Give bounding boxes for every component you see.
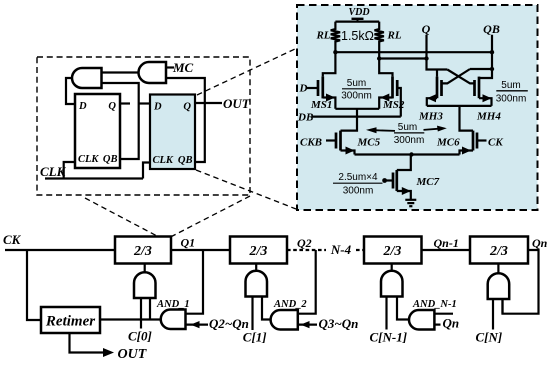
wire QB vertical [479,35,492,78]
wire CK [5,249,115,251]
wire DB [312,115,401,117]
latch D1 [75,94,120,168]
dashed wire N-4 to stage N-1 [356,249,364,251]
wire G4 input CN [492,299,494,330]
wire G1 output to stage 1 [144,264,146,273]
wire Qn output and feedback to mod gate 4 [503,250,539,314]
transistor MH4 [475,77,492,106]
divider block 2/3 stage N [470,237,528,264]
svg-text:MH4: MH4 [476,111,501,123]
wire A1 output to latch1 D [66,78,75,104]
transistor MS2 [379,59,401,117]
wire MC input stub [166,66,174,68]
dashed wire Q2 to N-4 [287,249,326,251]
svg-text:300nm: 300nm [394,135,425,146]
svg-text:DB: DB [297,111,313,123]
wire A2 output to A1 input [102,71,139,73]
svg-text:MC7: MC7 [416,176,440,188]
ground symbol [405,200,416,206]
mod AND gate G4 [488,273,510,299]
AND gate AND_N-1 [409,310,434,330]
svg-text:Q2: Q2 [297,236,312,250]
divider block 2/3 stage N-1 [364,237,422,264]
svg-text:Q3~Qn: Q3~Qn [319,316,359,331]
VDD supply symbol [352,19,364,22]
wire CK drop to Retimer [27,250,41,320]
callout dashed diagonal cell box to divider 2/3 block right [172,196,251,237]
svg-text:CKB: CKB [300,137,322,149]
wire MH pair common source rail [427,105,492,107]
svg-text:AND_N-1: AND_N-1 [412,299,457,310]
svg-text:D: D [153,102,162,113]
svg-text:QB: QB [178,155,193,166]
Retimer box [41,307,100,333]
svg-text:CLK: CLK [153,155,174,166]
wire G3 input CN-1 [385,297,387,330]
wire G2 output to stage 2 [255,264,257,272]
svg-text:5um: 5um [347,78,366,89]
wire A2 input from latch2 QB [166,78,205,162]
wire AND_N-1 input Qn stub [434,324,440,326]
AND gate A1 [72,68,102,88]
callout dashed diagonal latch2 Q to transistor box [197,49,296,96]
wire Retimer OUT with arrow [70,333,115,357]
mod AND gate G1 [134,272,156,298]
svg-text:MC6: MC6 [436,137,460,149]
transistor MS1 [306,52,335,109]
svg-text:RL: RL [387,30,402,42]
svg-text:2/3: 2/3 [383,244,402,259]
wire Q1 drop to AND_1 [186,250,204,314]
wire Qn-1 [422,249,471,251]
svg-text:OUT: OUT [223,96,251,111]
transistor MC7 [386,155,411,200]
wire G4 output to stage N [497,264,499,274]
wire G4 input feedback [501,299,503,314]
svg-text:N-4: N-4 [330,242,352,257]
junction dot QB line upper [490,50,494,54]
label 5um/300nm MH pair [496,80,528,104]
svg-text:C[1]: C[1] [243,330,267,345]
resistor RL right [375,22,384,59]
svg-text:AND_2: AND_2 [273,299,307,310]
callout dashed diagonal latch2 QB to transistor box [196,170,296,209]
transistor MH3 [427,70,442,106]
label 2.5um x4 / 300nm [333,172,383,197]
wire Q2 drop to AND_2 [298,250,316,314]
junction dot Q line [424,56,428,60]
svg-text:MS1: MS1 [310,99,332,111]
mod AND gate G2 [246,271,268,297]
arrow to MC5 [366,127,395,133]
svg-text:C[0]: C[0] [128,329,152,344]
wire CLK riser to latch2 [143,163,150,179]
wire AND_2 input Q3~Qn with arrow [298,321,317,328]
wire OUT from latch2 Q [195,102,222,104]
svg-text:2/3: 2/3 [489,244,508,259]
divider block 2/3 stage 1 [115,237,171,264]
AND gate AND_1 [161,310,186,330]
wire MS source drop to MC5 [341,109,358,131]
svg-text:OUT: OUT [118,347,148,362]
svg-text:RL: RL [315,30,330,42]
svg-text:2/3: 2/3 [249,244,268,259]
svg-text:MH3: MH3 [418,111,443,123]
wire G1 input C0 [140,298,142,329]
AND gate AND_2 [271,310,298,330]
svg-text:5um: 5um [501,80,520,91]
wire latch1 Q stub [120,102,130,104]
wire A1 input to latch2 D and latch1 QB [102,83,139,159]
svg-text:C[N]: C[N] [476,330,503,345]
wire G2 input from AND_2 [262,297,271,320]
svg-text:5um: 5um [398,122,417,133]
mod AND gate G3 [381,271,403,297]
svg-text:Qn: Qn [532,236,548,250]
svg-text:CK: CK [3,232,22,247]
junction dot left RL node [333,50,337,54]
svg-text:QB: QB [483,22,500,36]
wire CLK [45,177,143,179]
svg-text:Q: Q [422,22,431,36]
junction dot QB line lower [490,67,494,71]
svg-text:Q1: Q1 [181,236,196,250]
wire CLK riser to latch1 [64,162,75,179]
wire upper node rail from RL left to QB line [335,51,492,53]
wire lower node rail from RL right to Q line [379,57,426,59]
svg-text:D: D [78,101,87,112]
svg-text:Q: Q [108,101,116,112]
wire supply rail [335,21,379,23]
wire AND_N-1 input top stub [434,313,453,315]
svg-text:D: D [299,83,308,95]
svg-text:Q: Q [183,102,191,113]
svg-text:Qn: Qn [443,316,460,331]
transistor MC6 [460,131,487,155]
wire AND_1 input Q2~Qn with arrow [186,321,209,328]
transistor MC5 [326,131,355,155]
svg-text:Retimer: Retimer [45,314,95,330]
callout dashed diagonal cell box to divider 2/3 block left [85,198,157,236]
svg-text:AND_1: AND_1 [156,299,190,310]
svg-text:Qn-1: Qn-1 [434,236,459,250]
svg-text:300nm: 300nm [496,93,527,104]
wire G3 input from AND_N-1 [397,297,409,320]
wire Q1 [171,249,230,251]
AND gate A2 [139,62,167,83]
svg-text:MC: MC [172,60,194,75]
svg-text:1.5kΩ: 1.5kΩ [341,29,374,43]
dashed callout box of 2/3 divider cell [37,57,250,195]
wire MS pair common source rail [335,108,379,110]
resistor RL left [331,22,340,53]
svg-text:300nm: 300nm [343,186,374,197]
wire G3 output to stage N-1 [391,264,393,272]
svg-text:VDD: VDD [348,7,369,18]
svg-text:300nm: 300nm [341,90,372,101]
wire Q vertical [427,35,448,70]
wire cross-couple from QB top [470,68,492,70]
wire G1 input from AND_1 [149,298,151,320]
label 5um/300nm MS pair [341,78,372,101]
label 5um/300nm MC pair [394,122,425,146]
junction dot MC rail [409,152,413,156]
wire G2 input C1 [251,297,253,331]
dashed blue transistor schematic panel [297,5,538,210]
wire cross-couple diagonal A [447,70,474,84]
svg-text:CLK: CLK [78,154,99,165]
wire branch to latch2 D [139,102,150,104]
junction dot MC7 gate bias [382,178,387,183]
svg-text:MS2: MS2 [382,99,405,111]
divider block 2/3 stage 2 [230,237,287,264]
svg-text:MC5: MC5 [357,137,381,149]
svg-text:QB: QB [103,154,118,165]
arrow to MC6 [424,126,447,132]
latch D2 (blue) [150,95,195,170]
wire AND_1 output to Retimer [100,318,161,320]
svg-text:2/3: 2/3 [133,244,152,259]
junction dot right RL node [377,56,381,60]
svg-text:CK: CK [488,137,503,149]
wire MH source drop to MC6 [460,106,474,131]
svg-text:2.5um×4: 2.5um×4 [338,172,378,183]
wire MC pair common source rail [355,153,460,155]
wire cross-couple diagonal B [442,69,471,83]
svg-text:C[N-1]: C[N-1] [370,330,408,345]
